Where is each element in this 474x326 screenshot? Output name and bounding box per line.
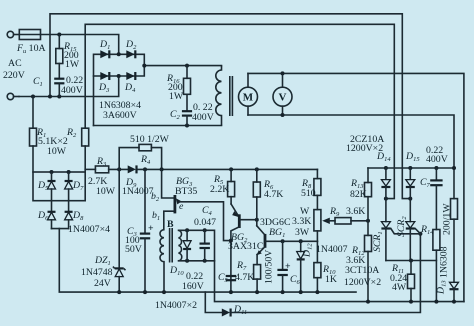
wire top bus 1 (AC line to SCR2 leg) xyxy=(50,14,410,199)
label DZ1 1N4748 24V xyxy=(81,255,113,289)
node R16 tap xyxy=(185,64,189,68)
svg-text:C1: C1 xyxy=(33,76,43,88)
node D12 tap xyxy=(299,239,303,243)
fuse Fu1 10A xyxy=(19,30,40,40)
label SCR1 xyxy=(372,231,384,252)
label 0.22 400V for C7 xyxy=(426,145,448,165)
resistor R7 4.7K xyxy=(254,255,261,293)
diode D5 xyxy=(48,172,56,201)
label 2CZ10A 1200Vx2 xyxy=(346,134,384,154)
node D10 top xyxy=(185,228,189,232)
inductor core xyxy=(230,76,233,116)
node transformer primary on ground bus xyxy=(162,290,166,294)
BG1 emitter lead with arrow xyxy=(257,247,265,255)
svg-text:2.2K: 2.2K xyxy=(210,184,229,195)
voltmeter V xyxy=(273,73,292,115)
svg-text:C4: C4 xyxy=(202,205,213,217)
svg-text:Fu 10A: Fu 10A xyxy=(16,43,46,55)
node bridge mid top xyxy=(117,52,121,56)
node R11 on output wire xyxy=(409,300,413,304)
capacitor C2 0.22/400V xyxy=(182,111,192,125)
svg-text:D2: D2 xyxy=(125,39,137,51)
node D10 bottom xyxy=(185,259,189,263)
label D9 1N4007 xyxy=(122,177,154,197)
svg-text:510: 510 xyxy=(301,188,316,199)
node C4 bottom xyxy=(203,259,207,263)
svg-text:D15: D15 xyxy=(405,151,420,163)
label C2 0.22 400V xyxy=(170,102,214,123)
wire meter bottom rail to SCR anode rail xyxy=(248,115,454,168)
wire AC neutral to bridge mid-bottom xyxy=(19,76,119,97)
SCR1 3CT10A xyxy=(381,222,390,261)
node BG2 base junction xyxy=(255,218,259,222)
BG2 base wire to R6/BG1 xyxy=(240,219,257,221)
node R15 on fuse wire xyxy=(57,33,61,37)
resistor R3 2.7K 10W xyxy=(95,166,108,173)
svg-text:1N4007×4: 1N4007×4 xyxy=(68,224,110,235)
BG1 collector lead xyxy=(257,226,265,235)
svg-text:D4: D4 xyxy=(124,82,136,94)
label D1 xyxy=(99,39,110,51)
wire low-voltage supply line R3/D9 xyxy=(85,168,317,170)
svg-text:DZ1: DZ1 xyxy=(94,255,111,267)
svg-text:160V: 160V xyxy=(182,281,204,292)
label R7 4.7K xyxy=(235,260,254,283)
label 0.22 400V for C1 xyxy=(61,75,83,96)
node D9 anode xyxy=(117,167,121,171)
label AC 220V xyxy=(3,58,25,81)
svg-text:3A600V: 3A600V xyxy=(103,110,137,121)
node D7 top xyxy=(67,170,71,174)
label R16 200 1W xyxy=(166,73,184,102)
inductor main winding xyxy=(216,66,222,126)
label R4 xyxy=(140,154,151,166)
box frame around D5 D7 xyxy=(33,172,85,201)
svg-text:24V: 24V xyxy=(94,278,111,289)
svg-text:1N4007: 1N4007 xyxy=(316,244,348,255)
svg-text:D1: D1 xyxy=(99,39,110,51)
label 1N6308x4 3A600V xyxy=(99,100,141,121)
label R12 3.6K xyxy=(346,245,365,266)
capacitor C1 0.22/400V xyxy=(54,79,64,97)
svg-text:D8: D8 xyxy=(72,210,84,222)
SCR gate node xyxy=(418,232,422,236)
UJT b1 lead to pulse transformer xyxy=(164,211,174,230)
diode D12 1N4007 xyxy=(297,241,305,292)
label R8 510 xyxy=(301,178,316,199)
transistor BG1 3DG6C bar xyxy=(264,234,267,248)
node R5 tap xyxy=(229,167,233,171)
label R15 200 1W xyxy=(63,41,80,70)
node D14 on rail xyxy=(384,166,388,170)
label SCR2 xyxy=(396,216,408,237)
svg-text:200/1W: 200/1W xyxy=(442,203,453,235)
node bus1 tap xyxy=(48,95,52,99)
svg-text:1200V×2: 1200V×2 xyxy=(344,277,381,288)
svg-text:R7: R7 xyxy=(236,260,247,272)
unijunction transistor BG3 BT35 bar xyxy=(173,195,176,213)
resistor R1 5.1K xyxy=(30,97,37,173)
diode D11 1N4007 xyxy=(222,309,231,317)
svg-text:D11: D11 xyxy=(233,304,247,316)
resistor R10 1K xyxy=(314,241,321,292)
label M xyxy=(243,92,254,104)
svg-text:3.3K: 3.3K xyxy=(292,216,311,227)
label D3 xyxy=(98,82,110,94)
label 200/1W rotated xyxy=(442,203,453,235)
node V bottom xyxy=(281,113,285,117)
label 100/50V C6 xyxy=(264,250,301,286)
svg-text:400V: 400V xyxy=(61,85,83,96)
svg-text:M: M xyxy=(243,92,254,104)
svg-text:D13: D13 xyxy=(436,280,448,295)
svg-text:1N4007: 1N4007 xyxy=(122,186,154,197)
resistor R5 2.2K xyxy=(228,169,235,204)
svg-text:C5: C5 xyxy=(218,272,229,284)
node D12 on ground bus xyxy=(299,290,303,294)
resistor R6 4.7K xyxy=(253,169,260,225)
label D10 0.22 160V xyxy=(169,265,204,292)
svg-text:e: e xyxy=(179,201,184,212)
diode D14 2CZ10A xyxy=(381,168,390,222)
svg-text:400V: 400V xyxy=(192,112,214,123)
node R12 on output wire xyxy=(366,300,370,304)
label 510 1/2W for R4 xyxy=(130,134,170,145)
svg-text:4.7K: 4.7K xyxy=(235,272,254,283)
wire ground branch to D11 xyxy=(205,292,222,312)
diode D10 xyxy=(183,230,191,260)
label D14 xyxy=(376,151,391,163)
label R5 2.2K xyxy=(210,174,229,195)
pulse transformer B primary winding xyxy=(160,230,164,292)
svg-text:BT35: BT35 xyxy=(175,186,197,197)
label R3 2.7K 10W xyxy=(88,156,116,197)
label R10 1K xyxy=(322,264,337,285)
label R1 R2 5.1Kx2 10W xyxy=(36,127,77,157)
wire top bus 2 (inner, to SCR1 leg) xyxy=(85,24,394,198)
resistor R11 0.24 4W shunt xyxy=(408,261,415,302)
svg-text:C7: C7 xyxy=(420,177,431,189)
label D13 rotated xyxy=(436,280,448,295)
svg-text:D3: D3 xyxy=(98,82,110,94)
diode D3 xyxy=(100,72,109,80)
svg-text:1N4007×2: 1N4007×2 xyxy=(155,300,197,311)
svg-text:+: + xyxy=(285,261,291,272)
label D5 D7 D6 D8 1N4007x4 xyxy=(37,180,110,235)
svg-text:3.6K: 3.6K xyxy=(346,206,365,217)
svg-text:3W: 3W xyxy=(295,227,310,238)
node BG2/C5 column on ground bus xyxy=(229,290,233,294)
svg-text:100/50V: 100/50V xyxy=(264,250,275,284)
potentiometer W 3.3K 3W xyxy=(314,210,321,242)
svg-text:AC: AC xyxy=(8,58,22,69)
diode D6 xyxy=(48,201,56,229)
node R7 on ground bus xyxy=(255,290,259,294)
resistor R9 3.6K xyxy=(335,218,368,224)
capacitor C3 100/50V electrolytic xyxy=(140,169,150,292)
resistor R13 82K xyxy=(365,168,372,235)
node R14 on output wire xyxy=(434,300,438,304)
node bridge output xyxy=(142,64,146,68)
node D15 on rail xyxy=(408,166,412,170)
pulse transformer core xyxy=(170,228,173,263)
svg-text:D7: D7 xyxy=(72,180,84,192)
diode D15 2CZ10A xyxy=(406,168,415,222)
label C4 0.047 xyxy=(194,205,216,228)
svg-text:1N4748: 1N4748 xyxy=(81,267,113,278)
label B transformer xyxy=(167,219,174,230)
svg-text:220V: 220V xyxy=(3,70,25,81)
wire bridge output negative xyxy=(94,125,222,127)
wire secondary bottom xyxy=(179,260,215,262)
node R1 tap xyxy=(31,95,35,99)
wire D11 to SCR gate return xyxy=(231,234,421,313)
node C2 bottom tap xyxy=(185,124,189,128)
resistor R14 snubber xyxy=(433,230,440,302)
node C6 on ground bus xyxy=(281,290,285,294)
label R9 3.6K xyxy=(329,206,365,218)
node C1 tap xyxy=(57,95,61,99)
label R14 xyxy=(420,224,434,236)
svg-text:V: V xyxy=(279,92,287,104)
diode D2 xyxy=(126,50,135,58)
node R10 on ground bus xyxy=(315,290,319,294)
svg-text:4.7K: 4.7K xyxy=(264,189,283,200)
pulse transformer B secondary winding xyxy=(179,230,182,260)
resistor R15 xyxy=(56,35,63,79)
svg-text:C2: C2 xyxy=(170,109,181,121)
potentiometer wiper arrow xyxy=(322,218,335,224)
svg-text:1W: 1W xyxy=(169,91,184,102)
label W 3.3K 3W xyxy=(292,206,311,238)
svg-text:R3: R3 xyxy=(96,156,107,168)
node bus1 joins SCR2 column xyxy=(408,197,412,201)
label R13 82K xyxy=(350,178,367,200)
node R11 top xyxy=(409,259,413,263)
svg-text:D6: D6 xyxy=(37,210,49,222)
resistor R4 510 1/2W parallel branch xyxy=(119,144,174,198)
svg-text:C6: C6 xyxy=(290,274,301,286)
node C3 tap xyxy=(143,167,147,171)
svg-text:D5: D5 xyxy=(37,180,49,192)
wire meter top rail to output node xyxy=(248,73,464,301)
diode D7 xyxy=(65,172,73,201)
node C7 on rail xyxy=(434,166,438,170)
svg-text:b1: b1 xyxy=(152,210,160,222)
svg-text:R14: R14 xyxy=(420,224,434,236)
diode D4 xyxy=(126,72,135,80)
svg-text:10W: 10W xyxy=(96,186,116,197)
svg-text:0.047: 0.047 xyxy=(194,217,216,228)
terminal AC input top xyxy=(7,31,19,37)
label C3 100 50V xyxy=(125,223,154,255)
svg-text:400V: 400V xyxy=(426,154,448,165)
node bus2 joins SCR1 column xyxy=(384,197,388,201)
node R9 joins R13/R12 column xyxy=(366,219,370,223)
UJT emitter lead with arrow xyxy=(176,198,230,240)
label D11 xyxy=(233,304,247,316)
label D4 xyxy=(124,82,136,94)
node DZ1 on ground bus xyxy=(117,290,121,294)
motor M xyxy=(239,73,258,115)
svg-text:1W: 1W xyxy=(65,59,80,70)
node D13 on output wire xyxy=(452,300,456,304)
svg-text:1N6308: 1N6308 xyxy=(439,246,450,278)
SCR2 3CT10A xyxy=(406,222,415,261)
capacitor C4 0.047 / 0.22 160V xyxy=(200,230,210,260)
resistor R12 3.6K xyxy=(365,235,372,301)
capacitor C7 0.22/400V snubber xyxy=(430,168,442,230)
svg-text:3AX31C: 3AX31C xyxy=(228,241,263,252)
resistor R2 5.1K xyxy=(82,128,89,172)
label Fu 10A xyxy=(16,43,46,55)
node V top xyxy=(281,71,285,75)
wire SCR anode rail xyxy=(368,167,454,169)
svg-text:BG1: BG1 xyxy=(269,227,285,239)
label R11 0.24 4W xyxy=(390,263,407,293)
transistor BG2 bar xyxy=(238,214,241,228)
node rail joins bleeder column xyxy=(452,166,456,170)
node C4 top xyxy=(203,228,207,232)
BG2 collector lead down xyxy=(231,227,239,292)
svg-text:+: + xyxy=(148,223,154,234)
label b2 b1 e xyxy=(151,191,184,222)
label BG2 3AX31C xyxy=(228,232,263,252)
label V xyxy=(279,92,287,104)
terminal AC input bottom xyxy=(7,93,19,99)
label 3CT10A 1200Vx2 xyxy=(344,265,381,288)
svg-text:10W: 10W xyxy=(47,146,67,157)
svg-text:4W: 4W xyxy=(392,282,407,293)
label C1 xyxy=(33,76,43,88)
node C6 tap xyxy=(281,239,285,243)
svg-text:510 1/2W: 510 1/2W xyxy=(130,134,170,145)
svg-text:SCR1: SCR1 xyxy=(372,231,384,252)
wire SCR cathode bus xyxy=(386,260,437,262)
wire bridge output positive xyxy=(144,65,221,67)
svg-text:R4: R4 xyxy=(140,154,151,166)
node bridge mid bottom xyxy=(117,74,121,78)
label D12 1N4007 xyxy=(302,243,348,258)
svg-text:R9: R9 xyxy=(329,206,340,218)
svg-text:D10: D10 xyxy=(169,265,184,277)
svg-text:82K: 82K xyxy=(350,189,367,200)
label R6 4.7K xyxy=(263,179,283,200)
diode D13 1N6308 xyxy=(450,282,459,301)
diode D8 xyxy=(65,201,73,229)
wire SCR2 gate xyxy=(415,229,420,234)
resistor 200/1W bleeder xyxy=(451,168,458,282)
resistor R8 510 xyxy=(314,169,321,209)
capacitor C5 xyxy=(226,276,236,280)
svg-text:B: B xyxy=(167,219,174,230)
label 3DG6C BG1 xyxy=(260,217,290,239)
label C7 xyxy=(420,177,431,189)
diode D1 xyxy=(100,50,109,58)
wire fused line to bridge mid-top xyxy=(41,35,119,55)
svg-text:1K: 1K xyxy=(325,274,337,285)
svg-text:D12: D12 xyxy=(302,243,314,258)
svg-text:b2: b2 xyxy=(151,191,160,203)
transistor BG2 3AX31C emitter lead xyxy=(231,204,239,217)
BG1 base wire xyxy=(266,240,318,242)
label D2 xyxy=(125,39,137,51)
wire SCR1 gate xyxy=(391,229,421,234)
node e joins BG2 collector xyxy=(229,239,233,243)
node C3 on ground bus xyxy=(143,290,147,294)
label BG3 BT35 xyxy=(175,176,197,197)
node R4/b2 column crossing xyxy=(160,167,164,171)
capacitor C6 100/50V electrolytic xyxy=(277,241,287,292)
svg-text:D14: D14 xyxy=(376,151,391,163)
diode D9 1N4007 xyxy=(128,165,137,173)
svg-text:3CT10A: 3CT10A xyxy=(345,265,379,276)
wire secondary top to gate loop xyxy=(179,230,464,301)
zener DZ1 1N4748 24V xyxy=(113,169,126,292)
label 1N6308 rotated xyxy=(439,246,450,278)
label 1N4007x2 xyxy=(155,300,197,311)
wire D6/D8 join to ground bus xyxy=(52,229,357,293)
svg-text:SCR2: SCR2 xyxy=(396,216,408,237)
label D15 xyxy=(405,151,420,163)
label C5 xyxy=(218,272,229,284)
node R6 tap xyxy=(255,167,259,171)
resistor R16 xyxy=(184,66,191,111)
node D5 top xyxy=(50,170,54,174)
svg-text:50V: 50V xyxy=(125,244,142,255)
diode bridge frame D1-D4 xyxy=(94,54,145,125)
